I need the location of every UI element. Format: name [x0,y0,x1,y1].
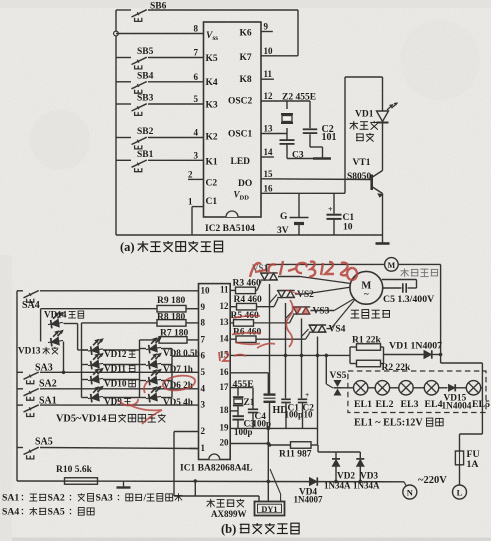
wire main bottom rail (b) [17,480,404,483]
wire VS2 left drop [270,295,278,304]
red annotation handwriting top [250,261,357,280]
svg-text:1: 1 [188,197,193,207]
capacitor C3 (a) [280,134,323,161]
svg-text:11: 11 [264,69,273,79]
lamp EL3 [390,381,419,411]
wire pin17 [230,387,253,389]
svg-text:1N4007: 1N4007 [294,495,323,505]
IC2 label BA5104 [205,224,255,234]
red annotation VD6 VD9 [120,376,195,424]
svg-text:(b): (b) [221,522,236,536]
wire pin2 C2 stub [188,178,204,180]
resistor R4 [230,295,262,310]
LED VD9 [82,386,140,407]
svg-text:6: 6 [201,351,206,361]
svg-text:DY1: DY1 [261,505,277,514]
switch SA4 [17,291,199,311]
resistor R8 180 [82,313,199,326]
svg-text:4: 4 [201,383,206,393]
wire pin14 stub [261,156,274,158]
wire gate VS3 [254,315,294,323]
svg-text:K6: K6 [240,29,252,39]
dashed lamp box [348,371,486,413]
capacitor C4 100p (b) [248,388,271,429]
diode VD15 1N4004 [439,384,472,411]
svg-text:10: 10 [343,223,353,233]
svg-text:1N4004: 1N4004 [442,401,472,411]
IC U-IC2 BA5104 body [204,22,262,217]
svg-text:SA2: SA2 [39,379,57,390]
svg-text:1: 1 [201,443,206,453]
wire VS4 to fan motor [327,300,355,329]
switch SA2 [17,379,199,400]
svg-text:4: 4 [194,128,199,138]
wire osc motor to bus [398,263,440,265]
wire VS5 drop [326,355,333,388]
wire HD column to DY1 [267,428,271,501]
svg-text:SA5: SA5 [48,507,65,518]
resistor R10 5.6k [56,465,98,484]
svg-text:EL4: EL4 [425,399,443,410]
lamp EL1 [354,381,373,411]
diode VD2 1N34A [324,452,355,491]
LED VD6 [140,369,193,390]
wire pin19 caps bottom rail [230,427,317,431]
svg-text:EL2: EL2 [376,399,394,410]
svg-text:1A: 1A [467,459,479,470]
svg-text:EL5: EL5 [472,399,490,410]
resistor R7 180 [140,328,199,343]
wire VS1 to osc motor line [266,264,268,272]
resistor R9 180 [41,296,199,312]
svg-text:18: 18 [220,405,230,415]
svg-text:R4 460: R4 460 [234,295,262,305]
svg-text:VD1: VD1 [355,109,374,119]
triac VS1 [252,263,278,280]
diode VD3 1N34A [353,452,380,491]
lamp EL5 [466,381,490,411]
switch SB1 [116,150,204,172]
svg-text:EL3: EL3 [401,399,419,410]
svg-text:10: 10 [304,410,314,420]
svg-text:VD1 1N4007: VD1 1N4007 [389,341,442,352]
motor M oscillation [385,258,439,277]
wire VD column to pin6 [172,349,199,398]
wire pin1 C1 from bottom rail [192,207,204,235]
svg-text:K8: K8 [240,75,252,85]
battery G 3V [277,193,309,236]
svg-text:8: 8 [194,24,199,34]
diode VD4 1N4007 [294,477,323,504]
svg-text:K5: K5 [206,54,218,64]
LED VD10 [82,368,140,389]
svg-text:DO: DO [238,179,252,189]
svg-text:VD10: VD10 [104,379,127,389]
wire rail drop to 496 [194,479,198,496]
svg-text:IC1 BA82068A4L: IC1 BA82068A4L [180,464,253,474]
svg-text:R1 22k: R1 22k [352,335,381,345]
svg-text:VD14: VD14 [44,310,67,320]
IC1 pin numbers [201,285,230,453]
svg-text:ss: ss [213,34,219,42]
capacitor C2 10 (b) [298,390,314,428]
svg-text:(a): (a) [120,240,135,254]
svg-text:SB4: SB4 [137,71,154,81]
svg-text:9: 9 [264,22,269,32]
wire VD13 down to SA3 [63,342,65,373]
triac VS2 [277,290,314,300]
svg-text:EL1 ~ EL5:12V: EL1 ~ EL5:12V [354,418,423,429]
svg-text:LED: LED [231,157,251,167]
label 220V [418,475,447,486]
ground (a) resonator [313,157,331,160]
wire pin16 to HD column [230,373,268,394]
diode VD1 1N4007 (b) [389,341,442,359]
caption SA functions line2 [2,507,94,518]
svg-text:OSC2: OSC2 [228,97,253,107]
switch SA5 [17,436,199,458]
wire pin15 rail [230,354,350,358]
wire right bus [441,264,483,434]
wire SA5 to pin1 [190,448,199,450]
IC U-IC1 BA82068A4L body [199,284,231,460]
svg-text:19: 19 [220,423,230,433]
wire R9 drop [40,309,42,342]
wire DY1 diag [270,469,281,502]
svg-text:100p: 100p [285,410,304,420]
wire pin13 OSC1 [261,133,287,135]
switch SB2 [116,127,204,149]
wire pin15 DO to base [261,178,371,181]
wire pin2 to DY1 [174,432,259,502]
switch SA1 [17,396,199,417]
svg-text:R9 180: R9 180 [157,296,185,306]
red annotation pin15 [219,352,246,361]
capacitor C1 10 electrolytic [327,193,355,235]
resistor network R1 R2 22k [350,335,424,373]
svg-text:SB5: SB5 [137,47,154,57]
LED VD1 infrared emitter [350,103,398,142]
svg-text:VS4: VS4 [329,325,346,335]
svg-text:R3 460: R3 460 [233,279,261,289]
svg-text:5: 5 [194,94,199,104]
svg-text:R8 180: R8 180 [157,313,185,323]
svg-text:~: ~ [364,289,369,299]
svg-text:+: + [305,390,309,399]
wire top line to oscillation motor [267,263,385,265]
wire gate VS2 [257,299,279,307]
svg-text:VS5: VS5 [330,371,347,381]
LED VD5 [140,386,193,407]
wire pin20 stub [230,442,270,446]
svg-text:9: 9 [201,302,206,312]
node Vss junction [114,31,119,36]
svg-text:S8050: S8050 [347,172,372,182]
caption (a) [120,240,223,254]
svg-text:+: + [328,205,333,214]
wire pin18 [230,410,238,412]
switch SA3 [17,362,199,383]
capacitor C5 motor [382,280,434,306]
svg-text:455E: 455E [233,379,255,390]
wire pin9 stub [261,31,273,33]
IC2 pin numbers [188,22,273,207]
capacitor C3 100p (b) [232,411,255,437]
LED VD12 [82,339,140,360]
wire Vss pin8 [116,33,204,35]
svg-text:DD: DD [240,195,250,202]
wire VD14 to VD12 column [64,324,89,351]
svg-text:C1: C1 [206,197,218,207]
lamp EL4 [413,381,442,411]
svg-text:VS2: VS2 [297,290,314,300]
svg-text:VD13: VD13 [18,346,41,356]
wire VDD riser to VD1 [345,77,383,193]
svg-text:SA1: SA1 [2,493,19,504]
svg-text:C5 1.3/400V: C5 1.3/400V [383,294,434,305]
switch SB4 [116,71,204,93]
wire SB6 to K7 pin10 [261,10,298,56]
svg-text:1N34A: 1N34A [353,481,380,491]
svg-text:14: 14 [264,147,274,157]
svg-text:~220V: ~220V [418,475,447,486]
svg-text:R10 5.6k: R10 5.6k [56,465,93,475]
svg-text:N: N [407,488,414,498]
terminal L [453,485,467,499]
lamp EL2 [368,381,394,411]
svg-text:3: 3 [194,150,199,160]
switch SB3 [116,93,204,115]
wire VS4 drop to R11 [317,337,319,446]
svg-text:R7 180: R7 180 [160,328,188,338]
IC1 label BA82068A4L [180,464,253,474]
LED VD13 [18,330,65,356]
svg-text:C1: C1 [343,213,355,223]
svg-text:12: 12 [220,301,230,311]
resistor R6 [230,327,261,342]
svg-text:15: 15 [264,169,274,179]
caption SA functions line1 [2,493,182,504]
fuse FU 1A [455,434,479,485]
capacitor C2 101 [303,101,337,159]
wire VS2 to fan motor [295,287,352,294]
resonator Z1 455E [233,379,255,411]
LED VD14 [44,310,84,329]
wire bottom rail (a) [116,234,383,236]
switch SB6 [116,1,298,21]
ground tap on rail [117,481,131,488]
svg-text:13: 13 [264,124,274,134]
svg-text:SB1: SB1 [137,150,154,160]
wire VS2 drop to C1 [285,303,287,398]
svg-text:SA4: SA4 [2,507,19,518]
svg-text:7: 7 [201,334,206,344]
svg-text:K7: K7 [240,53,252,63]
svg-text:VD12: VD12 [104,349,127,359]
svg-text:K2: K2 [206,133,218,143]
wire emitter to rail and ground [376,194,390,244]
svg-text:M: M [388,261,396,270]
svg-text:C3: C3 [292,150,304,160]
wire pin16 VDD rail [261,192,345,194]
svg-text:20: 20 [220,438,230,448]
red annotation scribble R5 R6 [232,300,293,348]
svg-text:13: 13 [220,317,230,327]
wire left rail (b) [16,291,18,481]
svg-text:3: 3 [201,400,206,410]
svg-text:/: / [143,493,147,504]
svg-text:16: 16 [264,183,274,193]
IC2 pin names [206,29,253,208]
terminal N [403,482,417,499]
svg-text:R11 987: R11 987 [279,449,312,459]
wire left rail (a) [115,10,117,235]
svg-text:OSC1: OSC1 [228,130,253,140]
svg-text:L: L [457,488,463,498]
svg-text:K1: K1 [206,158,218,168]
svg-text:C2: C2 [206,179,218,189]
svg-text:SB6: SB6 [150,1,167,11]
svg-text:6: 6 [194,72,199,82]
svg-text:7: 7 [194,48,199,58]
svg-text:VD5~VD14: VD5~VD14 [56,414,107,425]
wire VS1 drop to HD [269,284,271,394]
svg-text:12: 12 [264,91,274,101]
svg-text:VS3: VS3 [313,306,330,316]
svg-text:SA1: SA1 [39,396,57,407]
svg-text:G: G [280,212,288,222]
note VD5-VD14 LEDs [56,414,166,425]
wire VD1 to collector [382,124,384,171]
triac VS4 [309,325,346,335]
svg-text:2: 2 [201,426,206,436]
svg-text:VT1: VT1 [353,158,371,168]
motor M fan [350,271,390,318]
resistor R5 [230,311,259,326]
red annotation VS3 overlay [286,290,310,314]
module DY1 IR receiver [255,502,285,516]
svg-text:IC2 BA5104: IC2 BA5104 [205,224,255,234]
svg-text:16: 16 [220,367,230,377]
wire pin11 stub [261,78,274,80]
wire gate VS1 [256,281,262,290]
LED VD8 [140,337,200,358]
svg-text:11: 11 [220,285,229,295]
transistor VT1 S8050 [347,158,384,198]
svg-text:Z2 455E: Z2 455E [282,92,316,102]
caption (b) [221,522,299,536]
svg-text:K4: K4 [206,78,218,88]
filter HD [264,395,288,429]
label EL1-EL5 12V [354,418,443,429]
resistor R3 [230,279,261,294]
svg-text:10: 10 [201,286,211,296]
svg-text:5: 5 [201,367,206,377]
capacitor C1 100p (b) [281,399,303,428]
svg-text:SA3: SA3 [96,493,113,504]
svg-text:1N34A: 1N34A [324,481,351,491]
svg-text:8: 8 [201,317,206,327]
triac VS3 [293,306,330,316]
svg-text:AX899W: AX899W [211,509,247,519]
LED VD11 [82,353,140,374]
svg-text:2: 2 [188,169,193,179]
svg-text:14: 14 [220,333,230,343]
wire VS3 left drop [286,311,293,319]
svg-text:SA3: SA3 [35,362,53,373]
wire R8 drop column [81,323,83,398]
LED VD7 [140,353,193,374]
diac VS5 [330,371,354,396]
svg-text:10: 10 [264,46,274,56]
wire VS3 to fan motor [311,299,355,311]
svg-text:SA2: SA2 [48,493,65,504]
wire VS4 left drop [302,329,309,337]
switch SB5 [116,47,204,69]
svg-text:EL1: EL1 [354,399,372,410]
svg-text:K3: K3 [206,101,218,111]
svg-text:101: 101 [322,132,337,143]
label IR receiver AX899W [207,499,247,519]
svg-text:SA4: SA4 [22,300,40,311]
svg-text:SB2: SB2 [137,127,154,137]
wire VS3 drop to C2 [301,319,303,399]
resonator Z2 455E [281,92,316,133]
resistor R11 987 [268,442,361,460]
wire R7 drop column [139,340,141,398]
svg-text:17: 17 [220,382,230,392]
svg-text:SA5: SA5 [35,436,53,447]
wire pin12 OSC2 [261,100,310,102]
svg-text:SB3: SB3 [137,93,154,103]
wire gate VS4 [256,333,310,339]
wire VS1 right to fan motor [278,277,351,284]
